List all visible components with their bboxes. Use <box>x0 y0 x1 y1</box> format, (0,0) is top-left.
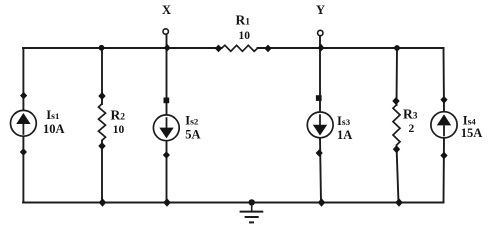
resistor R2 <box>99 104 106 141</box>
junction dot Is4 top <box>440 96 447 104</box>
svg-text:2: 2 <box>409 123 415 135</box>
junction dot: bottom bus / R2 <box>99 198 107 206</box>
svg-text:Is1: Is1 <box>46 108 59 122</box>
resistor R3 <box>393 105 400 145</box>
svg-text:R3: R3 <box>403 107 418 122</box>
wire: R2 branch upper <box>101 48 103 104</box>
wire: R2 branch lower <box>101 141 103 203</box>
current source Is2 <box>153 115 179 141</box>
wire: top bus right segment <box>258 47 444 49</box>
wire: X stem <box>166 34 168 48</box>
wire: Is4 branch lower <box>443 138 446 203</box>
node Y terminal <box>318 30 323 35</box>
current source Is3 <box>307 112 333 138</box>
wire: R3 branch upper <box>396 48 399 105</box>
svg-text:15A: 15A <box>461 126 483 140</box>
junction dot: bottom bus / Is2 <box>163 198 171 206</box>
junction dot Y <box>318 44 325 52</box>
junction square Is3 top <box>316 95 322 101</box>
wire: Is4 branch upper <box>443 48 446 112</box>
svg-text:Is2: Is2 <box>185 114 199 128</box>
wire: Is1 branch upper <box>22 48 24 111</box>
junction dot R1 left <box>215 45 222 53</box>
wire: Y stem <box>319 36 321 49</box>
junction dot: top bus / R3 <box>394 45 400 51</box>
wire: R3 branch lower <box>397 146 399 203</box>
wire: Is3 branch lower <box>320 138 321 203</box>
junction dot Is2 bottom <box>163 151 170 159</box>
junction dot R2 top <box>98 92 105 100</box>
svg-text:10: 10 <box>113 124 125 136</box>
svg-text:R2: R2 <box>111 107 126 122</box>
svg-text:10A: 10A <box>43 122 65 136</box>
junction dot R3 top <box>392 97 399 105</box>
svg-text:5A: 5A <box>185 127 200 141</box>
ground <box>240 199 264 222</box>
junction dot: bottom bus / R3 <box>395 198 403 206</box>
current source Is4 <box>431 112 457 138</box>
junction dot R2 bottom <box>98 142 105 150</box>
junction dot X <box>164 44 171 52</box>
svg-text:Is3: Is3 <box>337 114 351 128</box>
junction dot: bottom bus / Is3 <box>318 198 326 206</box>
svg-text:10: 10 <box>239 30 251 42</box>
svg-text:X: X <box>162 3 171 17</box>
junction dot: top bus / R2 <box>99 45 105 51</box>
wire: Is2 branch lower <box>166 141 168 203</box>
junction dot R1 right <box>264 45 271 53</box>
wire: top bus left segment <box>23 47 222 49</box>
wire: Is3 branch upper <box>319 48 321 112</box>
svg-text:1A: 1A <box>337 128 352 142</box>
wire: bottom bus <box>23 202 444 204</box>
wire: Is1 branch lower <box>22 136 24 203</box>
junction dot R3 bottom <box>393 145 400 153</box>
current source Is1 <box>11 110 37 136</box>
svg-text:R1: R1 <box>236 13 251 28</box>
wire: Is2 branch upper <box>166 48 168 115</box>
node X terminal <box>163 29 168 34</box>
junction dot Is4 bottom <box>440 152 447 160</box>
resistor R1 <box>222 45 258 51</box>
junction square Is2 top <box>164 98 170 104</box>
junction dot Is1 bottom <box>20 148 27 156</box>
svg-text:Y: Y <box>316 3 325 17</box>
junction dot Is1 top <box>20 92 27 100</box>
junction dot Is3 bottom <box>316 149 323 157</box>
